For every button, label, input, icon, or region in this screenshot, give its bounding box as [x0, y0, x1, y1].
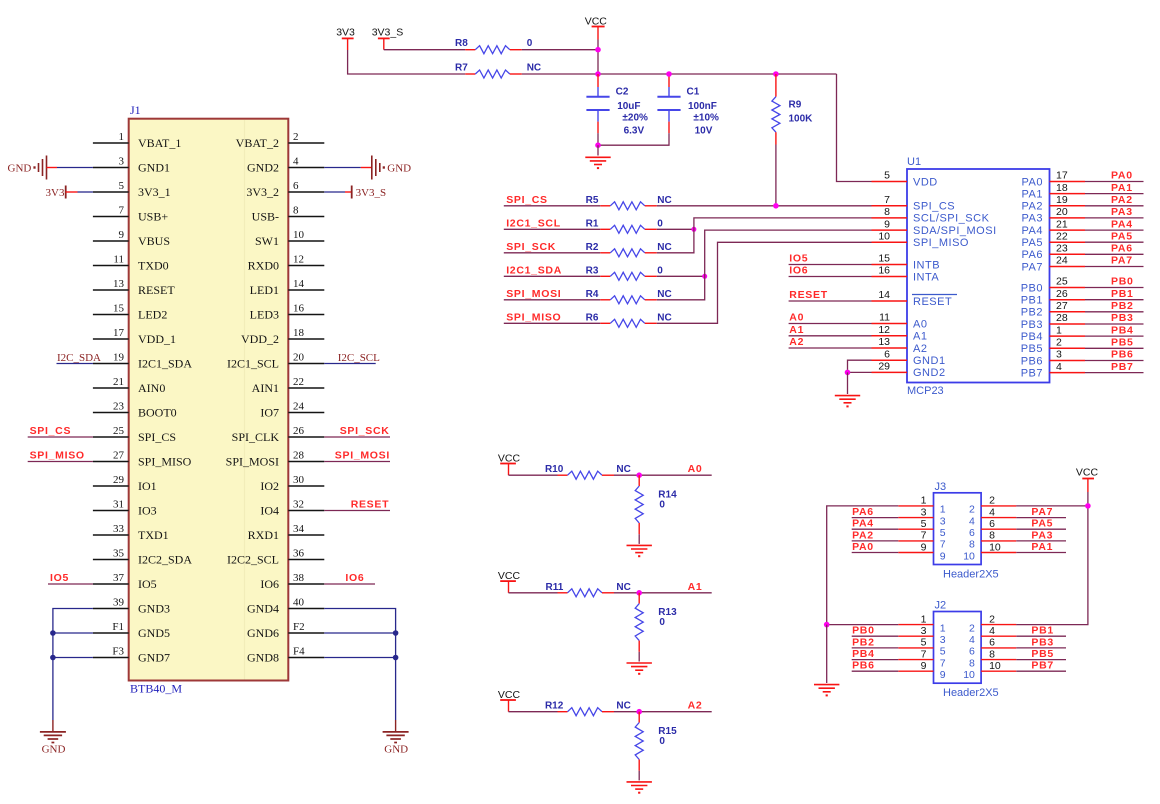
svg-text:PB6: PB6 [852, 660, 875, 672]
svg-text:10: 10 [963, 669, 975, 681]
J1 pin 27 (SPI_MISO) [93, 449, 192, 468]
svg-text:VDD_1: VDD_1 [138, 332, 176, 346]
wire I2C_SCL from pin 20 [324, 363, 375, 365]
svg-text:A1: A1 [913, 331, 927, 343]
J1 pin 19 (I2C1_SDA) [93, 351, 192, 370]
J2 pin 5 [898, 637, 945, 658]
svg-text:NC: NC [616, 464, 630, 475]
wire GND3 pin 39 to left bus [53, 609, 93, 721]
svg-text:IO4: IO4 [260, 504, 279, 518]
svg-text:18: 18 [293, 327, 305, 339]
svg-text:GND: GND [384, 744, 408, 756]
ground GND at J1 pin 3 [8, 156, 57, 180]
svg-text:2: 2 [989, 613, 995, 625]
svg-text:I2C1_SDA: I2C1_SDA [506, 264, 562, 276]
svg-text:MCP23: MCP23 [907, 385, 944, 397]
J1 pin 35 (I2C2_SDA) [93, 547, 192, 566]
svg-text:VCC: VCC [498, 689, 521, 701]
svg-text:SPI_MISO: SPI_MISO [30, 450, 85, 462]
svg-text:R7: R7 [455, 63, 468, 74]
svg-text:I2C_SDA: I2C_SDA [57, 352, 101, 364]
svg-text:NC: NC [657, 289, 671, 300]
resistor R10 [545, 464, 631, 479]
J3 pin 1 [898, 495, 945, 516]
svg-text:2: 2 [969, 622, 975, 634]
wire header bus to ground [826, 625, 828, 683]
wire R12 to A2 [614, 711, 712, 713]
J3 pin 10 [963, 541, 1016, 562]
svg-text:28: 28 [1056, 312, 1068, 324]
U1 pin 14 (RESET) [872, 289, 958, 308]
J2 pin 4 [969, 625, 1016, 646]
svg-text:RESET: RESET [138, 283, 175, 297]
svg-text:PA1: PA1 [1031, 541, 1053, 553]
svg-text:VBUS: VBUS [138, 234, 170, 248]
svg-text:8: 8 [293, 204, 299, 216]
svg-text:R5: R5 [586, 195, 599, 206]
svg-text:13: 13 [878, 336, 890, 348]
svg-text:PA0: PA0 [1022, 176, 1043, 188]
svg-text:29: 29 [878, 361, 890, 373]
wire GND2 to ground [848, 371, 872, 373]
svg-text:9: 9 [940, 550, 946, 562]
svg-text:6: 6 [969, 646, 975, 658]
svg-text:AIN0: AIN0 [138, 381, 165, 395]
svg-text:PB4: PB4 [1111, 324, 1134, 336]
wire GND1 to pin 3 [57, 167, 93, 169]
U1 pin 5 (VDD) [872, 170, 938, 189]
U1 pin 18 (PA1) [1022, 182, 1085, 201]
wire R3 to SDA node [657, 275, 705, 277]
svg-text:40: 40 [293, 596, 305, 608]
wire PA1 from J3 [1016, 552, 1066, 554]
wire PA5 from J3 [1016, 528, 1066, 530]
svg-text:2: 2 [989, 495, 995, 507]
J2 pin 7 [898, 648, 945, 669]
svg-text:SPI_MOSI: SPI_MOSI [335, 450, 390, 462]
svg-text:NC: NC [527, 63, 541, 74]
svg-text:SPI_CS: SPI_CS [913, 201, 955, 213]
svg-text:10uF: 10uF [617, 101, 640, 112]
svg-text:3V3: 3V3 [46, 187, 65, 199]
svg-text:1: 1 [921, 613, 927, 625]
J1 pin 2 (VBAT_2) [236, 131, 325, 150]
wire IO6 to U1 [789, 276, 872, 278]
svg-text:20: 20 [1056, 206, 1068, 218]
svg-text:23: 23 [1056, 243, 1068, 255]
svg-text:PA3: PA3 [1031, 529, 1053, 541]
svg-text:IO5: IO5 [138, 577, 157, 591]
wire VCC to R10 [509, 474, 558, 476]
svg-text:17: 17 [113, 327, 125, 339]
svg-text:SPI_SCK: SPI_SCK [506, 241, 556, 253]
svg-text:100K: 100K [789, 114, 814, 125]
J1 pin 39 (GND3) [93, 596, 170, 615]
J1 pin 7 (USB+) [93, 204, 168, 223]
svg-text:PA3: PA3 [1022, 213, 1043, 225]
wire R4 riser to U1 pin 9 [657, 230, 872, 300]
svg-text:8: 8 [989, 530, 995, 542]
junction A1 node [636, 590, 642, 596]
J1 pin 33 (TXD1) [93, 523, 169, 542]
svg-text:I2C2_SDA: I2C2_SDA [138, 553, 192, 567]
wire PA6 to J3 [852, 517, 899, 519]
svg-text:IO5: IO5 [50, 572, 69, 584]
svg-text:16: 16 [878, 265, 890, 277]
U1 pin 8 (SCL/SPI_SCK) [872, 206, 990, 225]
svg-text:0: 0 [527, 38, 533, 49]
svg-text:26: 26 [293, 425, 305, 437]
svg-text:IO3: IO3 [138, 504, 157, 518]
svg-text:0: 0 [659, 736, 665, 747]
J3 pin 4 [969, 506, 1016, 527]
J2 pin 3 [898, 625, 945, 646]
J2 pin 10 [963, 660, 1016, 681]
U1 pin 23 (PA6) [1022, 243, 1085, 262]
wire PA2 to J3 [852, 540, 899, 542]
J2 pin 6 [969, 637, 1016, 658]
junction VCC/R7 rail [595, 71, 601, 77]
J1 pin 6 (3V3_2) [246, 180, 324, 199]
wire IO5 to U1 [789, 264, 872, 266]
ground GND bottom right [383, 720, 409, 756]
J1 pin F4 (GND8) [247, 645, 324, 664]
svg-text:8: 8 [969, 539, 975, 551]
svg-text:BOOT0: BOOT0 [138, 406, 177, 420]
svg-text:R12: R12 [545, 701, 564, 712]
resistor R1 [586, 219, 664, 234]
wire to cap ground [597, 145, 599, 155]
svg-text:PB7: PB7 [1031, 660, 1054, 672]
junction A2 node [636, 709, 642, 715]
wire GND2 from pin 4 [324, 167, 361, 169]
svg-text:R9: R9 [789, 100, 802, 111]
svg-text:USB+: USB+ [138, 210, 168, 224]
svg-text:PB6: PB6 [1021, 355, 1043, 367]
svg-text:GND: GND [8, 162, 32, 174]
wire R7 rail to R9 and U1 [522, 73, 837, 75]
svg-text:AIN1: AIN1 [252, 381, 279, 395]
svg-text:LED2: LED2 [138, 308, 167, 322]
svg-text:A0: A0 [688, 463, 703, 475]
svg-text:VBAT_1: VBAT_1 [138, 136, 181, 150]
svg-text:RESET: RESET [351, 499, 390, 511]
wire SPI_SCK from pin 26 [324, 436, 390, 438]
J3 pin 7 [898, 530, 945, 551]
svg-text:F4: F4 [293, 645, 305, 657]
J1 pin 31 (IO3) [93, 498, 157, 517]
svg-text:I2C1_SDA: I2C1_SDA [138, 357, 192, 371]
U1 pin 9 (SDA/SPI_MOSI) [872, 218, 997, 237]
svg-text:PB7: PB7 [1111, 361, 1134, 373]
wire R10 to A0 [614, 474, 712, 476]
U1 pin 16 (INTA) [872, 265, 940, 284]
wire RESET from pin 32 [324, 510, 390, 512]
svg-text:15: 15 [113, 302, 125, 314]
svg-text:SPI_MISO: SPI_MISO [913, 237, 969, 249]
svg-text:PB0: PB0 [1111, 276, 1134, 288]
svg-text:6: 6 [989, 637, 995, 649]
J1 pin 9 (VBUS) [93, 229, 170, 248]
svg-text:21: 21 [1056, 218, 1068, 230]
ground under capacitors [585, 156, 610, 158]
wire net PB4 [1085, 335, 1144, 337]
J1 pin 22 (AIN1) [252, 376, 325, 395]
J1 pin 37 (IO5) [93, 572, 157, 591]
svg-text:10V: 10V [695, 125, 713, 136]
svg-text:23: 23 [113, 400, 125, 412]
svg-text:17: 17 [1056, 170, 1068, 182]
svg-text:SPI_CS: SPI_CS [30, 425, 72, 437]
resistor R11 [546, 582, 631, 597]
wire PA0 to J3 [852, 552, 899, 554]
svg-text:R2: R2 [586, 242, 599, 253]
svg-text:7: 7 [940, 539, 946, 551]
resistor R9 [772, 74, 813, 145]
svg-text:34: 34 [293, 523, 305, 535]
svg-text:10: 10 [293, 229, 305, 241]
svg-text:8: 8 [989, 648, 995, 660]
svg-text:5: 5 [884, 170, 890, 182]
J3 pin 8 [969, 530, 1016, 551]
svg-text:PA1: PA1 [1111, 182, 1133, 194]
capacitor C1 [657, 74, 719, 136]
junction R9 top [773, 71, 779, 77]
svg-text:PA7: PA7 [1022, 261, 1043, 273]
wire 3V3_S to R8 [384, 49, 466, 51]
svg-text:VCC: VCC [498, 570, 521, 582]
svg-text:PA4: PA4 [1022, 225, 1043, 237]
svg-text:A0: A0 [789, 312, 804, 324]
svg-text:PA7: PA7 [1111, 255, 1133, 267]
svg-text:PB5: PB5 [1111, 337, 1134, 349]
IC U1 MCP23 body [907, 156, 1050, 397]
ground GND at J1 pin 4 [361, 156, 411, 180]
svg-text:4: 4 [969, 515, 975, 527]
wire net PB6 [1085, 360, 1144, 362]
J1 pin 1 (VBAT_1) [93, 131, 181, 150]
svg-text:6: 6 [989, 518, 995, 530]
wire J3 pin2 to VCC riser [1016, 505, 1088, 507]
svg-text:PB4: PB4 [852, 648, 875, 660]
wire net PB5 [1085, 347, 1144, 349]
svg-text:R1: R1 [586, 219, 599, 230]
J2 pin 2 [969, 613, 1016, 634]
svg-text:PA1: PA1 [1022, 188, 1043, 200]
J1 pin 17 (VDD_1) [93, 327, 176, 346]
U1 pin 3 (PB6) [1021, 349, 1085, 368]
svg-text:NC: NC [657, 242, 671, 253]
svg-text:F1: F1 [112, 621, 124, 633]
svg-text:GND2: GND2 [247, 161, 279, 175]
svg-text:1: 1 [119, 131, 125, 143]
svg-text:IO6: IO6 [345, 572, 364, 584]
connector J1 body [129, 103, 289, 696]
svg-text:PA0: PA0 [1111, 170, 1133, 182]
svg-text:4: 4 [1056, 361, 1062, 373]
svg-text:RESET: RESET [789, 289, 828, 301]
svg-text:J1: J1 [130, 103, 141, 117]
U1 pin 2 (PB5) [1021, 337, 1085, 356]
wire SPI_MOSI to R4 [504, 299, 601, 301]
wire A0 to U1 [789, 323, 872, 325]
J1 pin 29 (IO1) [93, 474, 157, 493]
svg-text:PA3: PA3 [1111, 206, 1133, 218]
header J2 body [934, 600, 999, 700]
svg-text:Header2X5: Header2X5 [943, 687, 999, 699]
wire net PB1 [1085, 299, 1144, 301]
svg-text:GND1: GND1 [913, 355, 946, 367]
ground GND bottom left [40, 720, 66, 756]
svg-text:1: 1 [940, 504, 946, 516]
U1 pin 28 (PB3) [1021, 312, 1085, 331]
U1 pin 6 (GND1) [872, 348, 946, 367]
svg-text:4: 4 [969, 634, 975, 646]
wire SPI_SCK to R2 [504, 252, 601, 254]
svg-text:F2: F2 [293, 621, 305, 633]
J1 pin 8 (USB-) [252, 204, 325, 223]
svg-text:PA0: PA0 [852, 541, 874, 553]
svg-text:PB7: PB7 [1021, 367, 1043, 379]
wire I2C1_SCL to R1 [504, 228, 601, 230]
capacitor C2 [586, 74, 648, 136]
J1 pin 10 (SW1) [255, 229, 324, 248]
svg-text:PB4: PB4 [1021, 331, 1043, 343]
svg-text:3V3_1: 3V3_1 [138, 185, 171, 199]
junction SDA node [702, 274, 707, 279]
wire PB2 to J2 [852, 647, 899, 649]
svg-text:2: 2 [1056, 337, 1062, 349]
svg-text:R10: R10 [545, 464, 564, 475]
svg-text:PA6: PA6 [852, 506, 874, 518]
svg-text:10: 10 [963, 550, 975, 562]
resistor R8 [455, 38, 533, 54]
junction VCC/J3 pin2 [1085, 503, 1091, 509]
J1 pin 16 (LED3) [250, 302, 325, 321]
svg-text:A2: A2 [688, 700, 703, 712]
J3 pin 5 [898, 518, 945, 539]
svg-text:GND: GND [387, 162, 411, 174]
svg-text:11: 11 [879, 312, 890, 324]
wire PB5 from J2 [1016, 659, 1066, 661]
wire RESET to U1 [789, 300, 872, 302]
svg-text:5: 5 [921, 637, 927, 649]
svg-text:VCC: VCC [585, 15, 608, 27]
svg-text:0: 0 [659, 499, 665, 510]
U1 pin 13 (A2) [872, 336, 928, 355]
resistor R14 [635, 475, 677, 534]
svg-text:14: 14 [878, 289, 890, 301]
svg-text:RXD1: RXD1 [248, 528, 279, 542]
wire net PA1 [1085, 193, 1144, 195]
wire R6 riser to U1 pin 10 [657, 242, 872, 323]
svg-text:9: 9 [921, 541, 927, 553]
svg-text:16: 16 [293, 302, 305, 314]
wire R14 to ground [638, 534, 640, 544]
svg-text:VBAT_2: VBAT_2 [236, 136, 279, 150]
svg-text:7: 7 [921, 530, 927, 542]
svg-text:30: 30 [293, 474, 305, 486]
svg-text:I2C2_SCL: I2C2_SCL [227, 553, 279, 567]
J1 pin 11 (TXD0) [93, 253, 169, 272]
svg-text:VDD: VDD [913, 176, 938, 188]
svg-text:10: 10 [989, 541, 1001, 553]
junction cap ground node [595, 142, 601, 148]
wire A2 to U1 [789, 347, 872, 349]
svg-text:I2C_SCL: I2C_SCL [338, 352, 380, 364]
wire R11 to A1 [614, 592, 712, 594]
svg-text:PA5: PA5 [1022, 237, 1043, 249]
svg-text:SPI_MOSI: SPI_MOSI [226, 455, 279, 469]
svg-text:NC: NC [616, 701, 630, 712]
svg-text:7: 7 [921, 648, 927, 660]
power VCC for A0 [498, 452, 521, 475]
U1 pin 25 (PB0) [1021, 276, 1085, 295]
wire VDD branch [837, 74, 872, 182]
svg-text:U1: U1 [907, 156, 921, 168]
wire net PA2 [1085, 205, 1144, 207]
svg-text:10: 10 [878, 231, 890, 243]
svg-text:8: 8 [884, 206, 890, 218]
svg-text:27: 27 [113, 449, 125, 461]
wire SPI_CS to pin 25 [28, 436, 93, 438]
svg-text:C1: C1 [687, 86, 700, 97]
wire PB0 to J2 [852, 635, 899, 637]
U1 pin 1 (PB4) [1021, 324, 1085, 343]
svg-text:PB5: PB5 [1031, 648, 1054, 660]
header J3 body [934, 481, 999, 581]
wire VCC stem [597, 40, 599, 75]
J1 pin 40 (GND4) [247, 596, 324, 615]
svg-text:R8: R8 [455, 38, 468, 49]
svg-text:IO6: IO6 [789, 265, 808, 277]
resistor R15 [635, 712, 677, 771]
svg-text:5: 5 [940, 527, 946, 539]
svg-text:SPI_CS: SPI_CS [138, 430, 176, 444]
svg-text:GND5: GND5 [138, 626, 170, 640]
wire PB7 from J2 [1016, 670, 1066, 672]
svg-text:SPI_SCK: SPI_SCK [340, 425, 390, 437]
svg-text:20: 20 [293, 351, 305, 363]
svg-text:4: 4 [989, 506, 995, 518]
svg-text:29: 29 [113, 474, 125, 486]
svg-text:4: 4 [989, 625, 995, 637]
svg-text:TXD0: TXD0 [138, 259, 169, 273]
svg-text:IO7: IO7 [260, 406, 279, 420]
svg-text:SPI_MISO: SPI_MISO [138, 455, 192, 469]
wire GND6 pin F2 to right bus [324, 632, 395, 634]
svg-text:3V3_S: 3V3_S [372, 27, 404, 39]
svg-text:PB2: PB2 [1111, 300, 1134, 312]
J1 pin 21 (AIN0) [93, 376, 165, 395]
resistor R12 [545, 701, 631, 716]
power 3V3_S top [372, 27, 404, 50]
svg-text:21: 21 [113, 376, 124, 388]
ground under R14 [627, 544, 652, 546]
wire VCC to R12 [509, 711, 558, 713]
svg-text:VCC: VCC [498, 452, 521, 464]
svg-text:7: 7 [884, 194, 890, 206]
svg-text:PB3: PB3 [1031, 636, 1054, 648]
U1 pin 17 (PA0) [1022, 170, 1085, 189]
wire PA7 from J3 [1016, 517, 1066, 519]
J1 pin F1 (GND5) [93, 621, 170, 640]
svg-text:27: 27 [1056, 300, 1068, 312]
svg-text:INTB: INTB [913, 259, 940, 271]
svg-text:PA5: PA5 [1031, 518, 1053, 530]
svg-text:IO2: IO2 [260, 479, 279, 493]
svg-text:5: 5 [921, 518, 927, 530]
